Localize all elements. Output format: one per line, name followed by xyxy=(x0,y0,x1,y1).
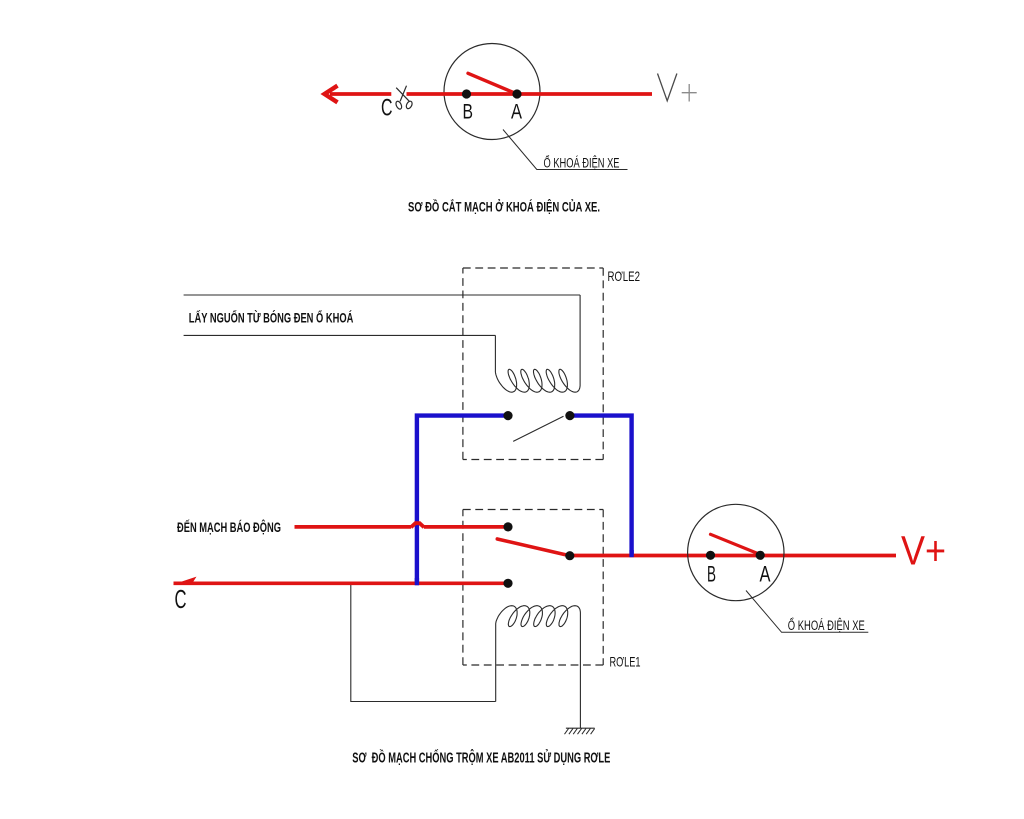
svg-text:A: A xyxy=(760,562,771,587)
svg-text:C: C xyxy=(381,95,393,122)
svg-text:B: B xyxy=(463,101,474,124)
svg-text:Ổ KHOÁ ĐIỆN XE: Ổ KHOÁ ĐIỆN XE xyxy=(544,156,620,171)
svg-text:A: A xyxy=(511,101,522,124)
svg-text:V+: V+ xyxy=(901,528,946,574)
svg-text:RƠLE1: RƠLE1 xyxy=(610,653,641,669)
svg-text:Ổ KHOÁ ĐIỆN XE: Ổ KHOÁ ĐIỆN XE xyxy=(788,618,865,633)
svg-text:SƠ ĐỒ CẮT MẠCH Ở KHOÁ ĐIỆN CỦA: SƠ ĐỒ CẮT MẠCH Ở KHOÁ ĐIỆN CỦA XE. xyxy=(408,198,600,215)
svg-text:B: B xyxy=(707,562,716,587)
svg-text:LẤY NGUỐN TỪ BÓNG ĐEN Ổ KHOÁ: LẤY NGUỐN TỪ BÓNG ĐEN Ổ KHOÁ xyxy=(189,308,353,325)
svg-text:SƠ ĐỒ MẠCH CHỐNG TRỘM XE AB20: SƠ ĐỒ MẠCH CHỐNG TRỘM XE AB2011 SỬ DỤNG … xyxy=(352,748,610,766)
svg-text:ĐẾN MẠCH BÁO ĐỘNG: ĐẾN MẠCH BÁO ĐỘNG xyxy=(177,520,281,535)
svg-text:C: C xyxy=(175,584,187,614)
svg-text:RƠLE2: RƠLE2 xyxy=(608,268,641,284)
